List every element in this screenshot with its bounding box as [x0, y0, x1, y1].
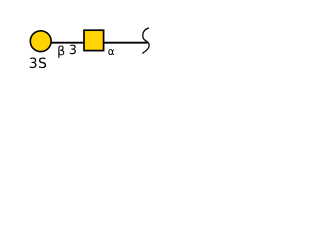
monosaccharide GalNAc (yellow square) — [84, 30, 104, 50]
label 3S (sulfate on Gal) — [30, 58, 37, 69]
label 3 (linkage position) — [70, 45, 76, 55]
wire square-to-reducing-end (alpha linkage line) — [103, 42, 148, 44]
label beta — [58, 46, 64, 58]
label alpha — [108, 49, 114, 55]
monosaccharide Gal (yellow circle) — [30, 31, 51, 52]
reducing-end squiggle — [142, 28, 149, 54]
wire circle-to-square (beta3 linkage line) — [50, 42, 85, 44]
